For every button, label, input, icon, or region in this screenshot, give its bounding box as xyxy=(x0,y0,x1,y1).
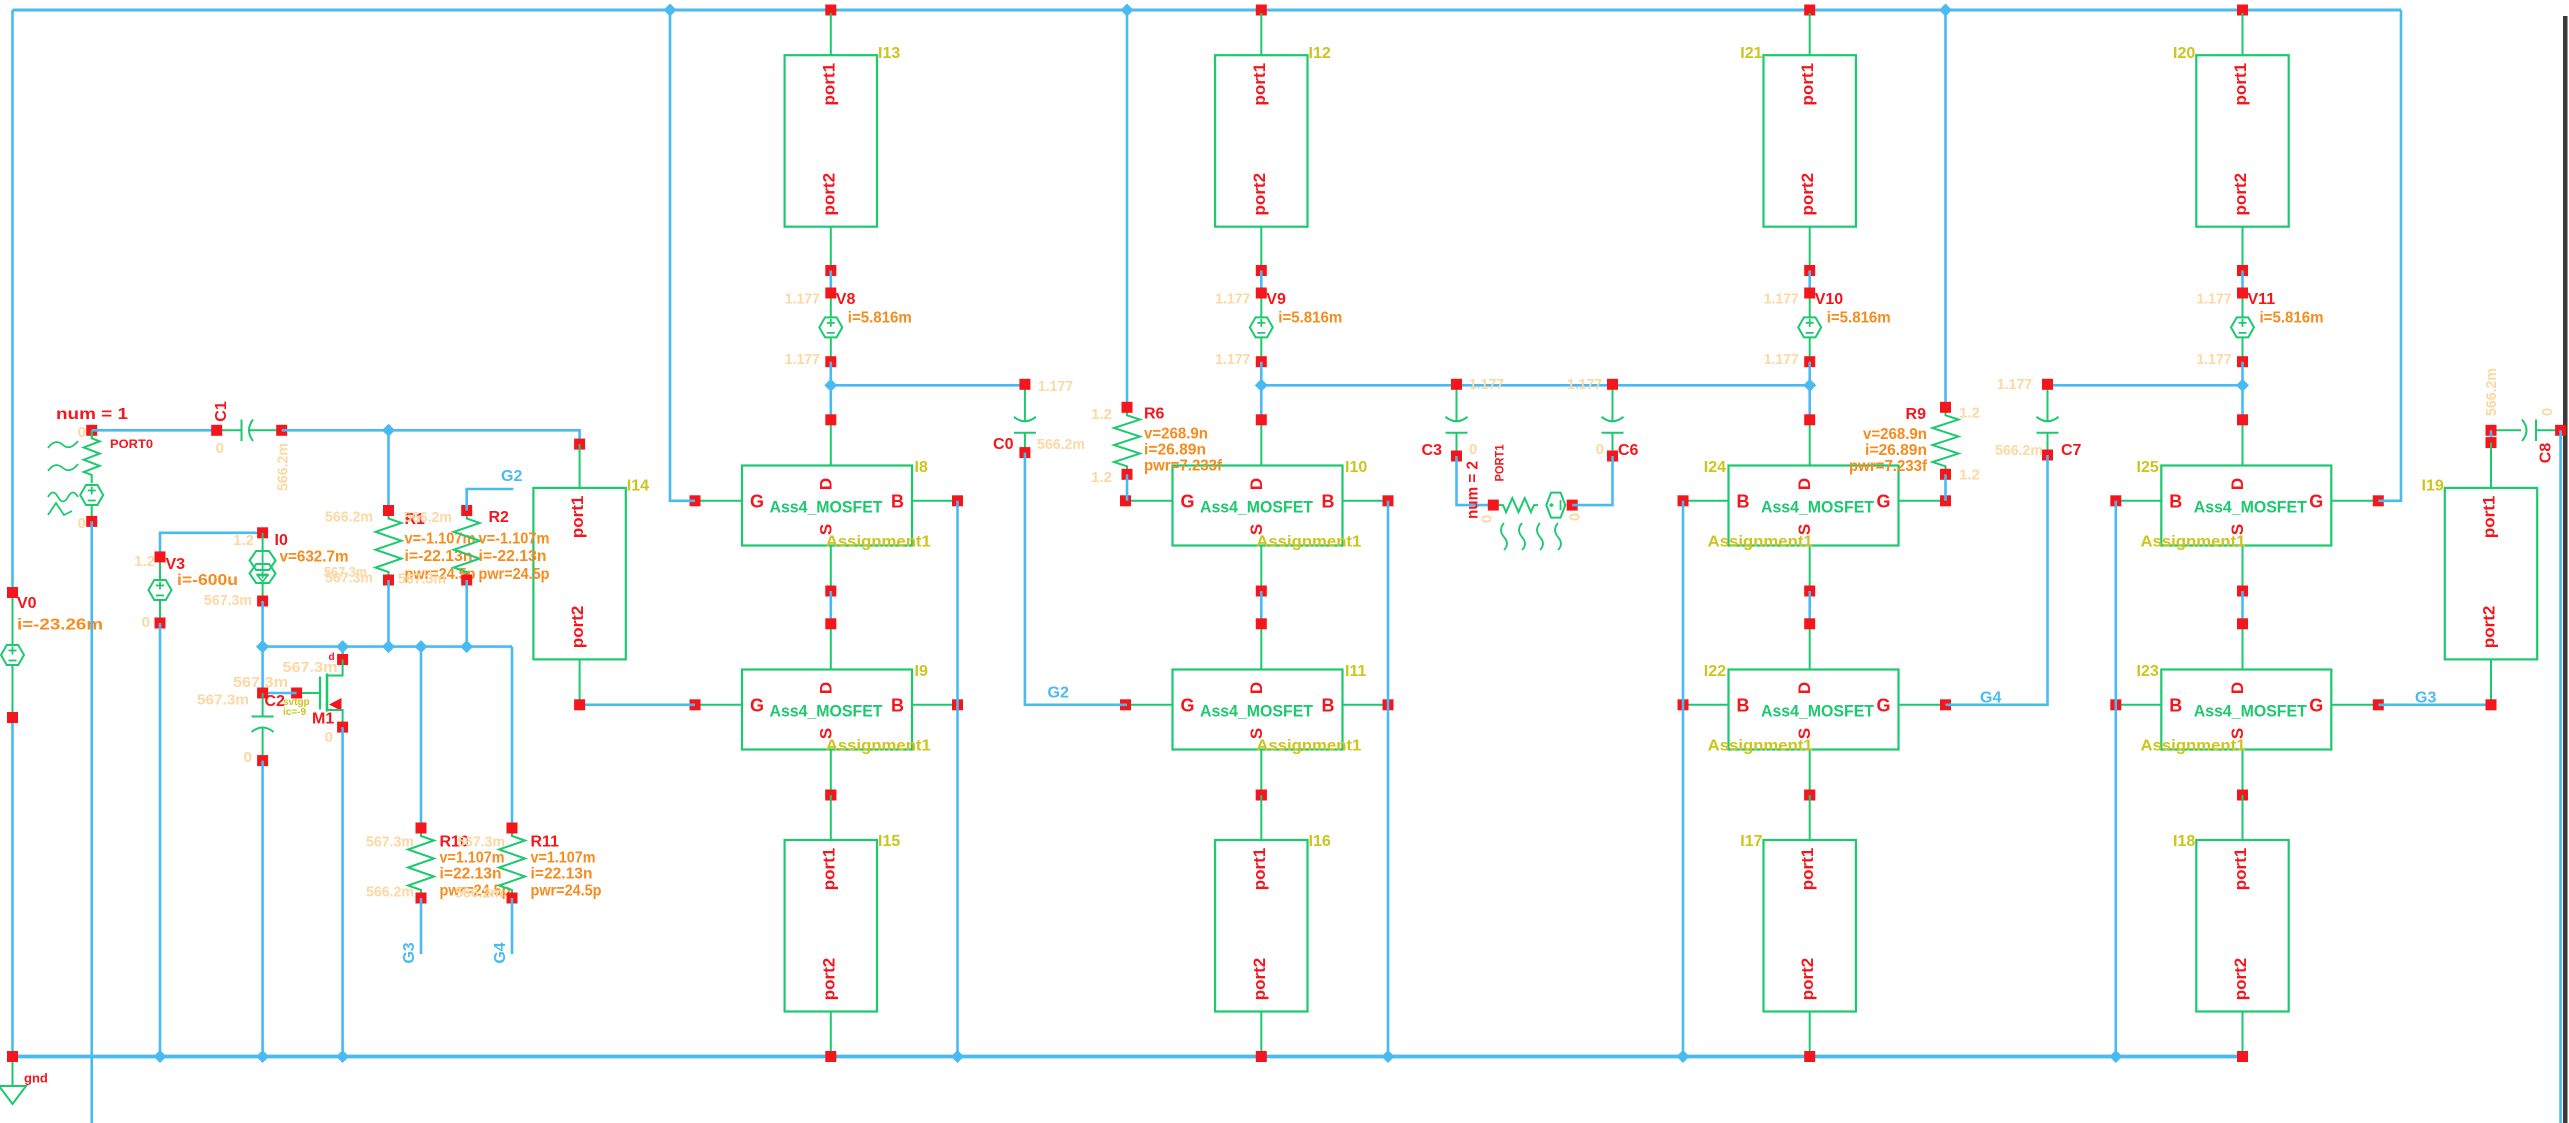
svg-text:0: 0 xyxy=(2539,408,2556,416)
wire gnd bottom rail xyxy=(11,1055,2248,1059)
svg-text:Assignment1: Assignment1 xyxy=(2141,738,2246,755)
svg-text:0: 0 xyxy=(1567,513,1584,521)
svg-text:G4: G4 xyxy=(492,942,509,963)
wire V3 to gnd rail xyxy=(159,623,162,1057)
current source I0 xyxy=(250,527,288,606)
svg-text:566.2m: 566.2m xyxy=(2483,368,2500,416)
svg-text:i=5.816m: i=5.816m xyxy=(1278,310,1342,327)
svg-text:port1: port1 xyxy=(1250,848,1269,891)
svg-text:port2: port2 xyxy=(2231,173,2250,216)
svg-text:port1: port1 xyxy=(819,63,838,106)
wire I14 port2 to I9 gate xyxy=(580,703,695,706)
capacitor C6 xyxy=(1602,379,1639,462)
svg-text:Assignment1: Assignment1 xyxy=(1256,534,1361,551)
svg-text:567.3m: 567.3m xyxy=(457,834,505,851)
wire I0 to mid node xyxy=(261,601,264,647)
svg-text:I13: I13 xyxy=(878,45,900,62)
wire R1 to mid node xyxy=(387,580,390,647)
wire C8 to I19 port1 xyxy=(2490,430,2493,442)
capacitor C3 xyxy=(1422,379,1468,462)
svg-text:M1: M1 xyxy=(312,711,334,728)
svg-text:C6: C6 xyxy=(1618,442,1639,459)
svg-text:566.2m: 566.2m xyxy=(366,884,414,901)
junction node col I25 xyxy=(2236,379,2249,392)
wire net G4 I22 gate to C7 xyxy=(1946,455,2048,705)
svg-text:G: G xyxy=(1876,695,1890,715)
wire C2 to gnd rail xyxy=(261,761,264,1057)
capacitor C0 xyxy=(993,379,1036,458)
junction bulk net I22 on gnd rail xyxy=(1677,1050,1690,1063)
svg-text:port1: port1 xyxy=(2231,63,2250,106)
wire node4 to C7 xyxy=(2048,384,2243,387)
svg-text:1.2: 1.2 xyxy=(233,532,254,549)
svg-text:G: G xyxy=(2309,695,2323,715)
wire vdd to R9 xyxy=(1944,10,1947,407)
svg-text:B: B xyxy=(891,491,904,511)
junction R9 on vdd rail xyxy=(1939,4,1952,17)
svg-text:I21: I21 xyxy=(1740,45,1762,62)
port source PORT0 xyxy=(80,425,103,527)
mosfet block I9 (Ass4_MOSFET) xyxy=(690,618,964,800)
svg-text:567.3m: 567.3m xyxy=(197,692,249,709)
svg-text:v=1.107m: v=1.107m xyxy=(531,850,596,867)
svg-text:i=-600u: i=-600u xyxy=(177,572,238,589)
wire PORT1 to C6 xyxy=(1572,456,1612,505)
svg-text:I23: I23 xyxy=(2137,663,2159,680)
svg-text:D: D xyxy=(1247,478,1266,490)
wire V8 to I8 drain node xyxy=(829,362,832,420)
wire mid node to R10 xyxy=(420,647,423,828)
wire node2 to node3 through C3 C6 xyxy=(1261,384,1809,387)
wire net G3 below R10 xyxy=(420,898,423,954)
svg-text:I8: I8 xyxy=(915,459,928,476)
wire V11 to I25 drain node xyxy=(2241,362,2244,420)
wire V0 to gnd rail xyxy=(11,718,14,1057)
svg-text:port2: port2 xyxy=(2231,958,2250,1001)
svg-text:0: 0 xyxy=(1479,515,1496,523)
svg-text:I11: I11 xyxy=(1345,663,1366,680)
junction C2 on gnd rail xyxy=(256,1050,269,1063)
wire bulk net column I25/I23 xyxy=(2115,501,2118,1057)
pin I12 port2 bottom xyxy=(1256,265,1267,276)
svg-text:G: G xyxy=(750,491,764,511)
svg-text:567.3m: 567.3m xyxy=(366,834,414,851)
svg-text:V8: V8 xyxy=(836,291,856,308)
wire C8 to right edge bottom xyxy=(2559,430,2562,1123)
svg-text:I10: I10 xyxy=(1345,459,1367,476)
svg-text:I20: I20 xyxy=(2173,45,2195,62)
vsource V8 xyxy=(819,288,855,368)
svg-text:port2: port2 xyxy=(819,958,838,1001)
svg-text:i=26.89n: i=26.89n xyxy=(1144,442,1206,459)
mosfet block I11 (Ass4_MOSFET) xyxy=(1120,618,1394,800)
junction bulk net I9 on gnd rail xyxy=(951,1050,964,1063)
pin I18 port2 on gnd rail xyxy=(2237,1051,2248,1062)
svg-text:C0: C0 xyxy=(993,436,1014,453)
wire stub net G2 at R2 xyxy=(467,489,514,511)
pin I14 port1 xyxy=(574,439,585,450)
wire bulk net column I24/I22 xyxy=(1682,501,1685,1057)
label R1 values xyxy=(405,531,476,584)
port block I18 xyxy=(2173,795,2289,1057)
resistor R6 xyxy=(1114,402,1165,480)
svg-text:port2: port2 xyxy=(2480,606,2499,649)
port block I19 xyxy=(2422,443,2538,705)
mosfet block I8 (Ass4_MOSFET) xyxy=(690,414,964,596)
svg-text:1.177: 1.177 xyxy=(2197,351,2232,368)
svg-text:566.2m: 566.2m xyxy=(275,443,292,491)
svg-text:I25: I25 xyxy=(2137,459,2159,476)
svg-text:v=268.9n: v=268.9n xyxy=(1863,426,1927,443)
pin I20 port2 bottom xyxy=(2237,265,2248,276)
svg-text:1.177: 1.177 xyxy=(1764,351,1799,368)
mosfet block I22 (Ass4_MOSFET) xyxy=(1678,618,1952,800)
svg-text:V10: V10 xyxy=(1815,291,1844,308)
junction bulk net I23 on gnd rail xyxy=(2109,1050,2122,1063)
junction bulk net I11 on gnd rail xyxy=(1382,1050,1395,1063)
port block I13 xyxy=(785,13,901,271)
wire I20 to V11 xyxy=(2241,271,2244,294)
wire node1 to C0 xyxy=(831,384,1025,387)
svg-text:1.2: 1.2 xyxy=(134,553,155,570)
wire left edge to V0 xyxy=(11,10,14,593)
pin I21 port2 bottom xyxy=(1804,265,1815,276)
svg-text:I19: I19 xyxy=(2422,478,2444,495)
svg-text:1.177: 1.177 xyxy=(1764,291,1799,308)
svg-text:V3: V3 xyxy=(166,556,186,573)
svg-text:port2: port2 xyxy=(1250,173,1269,216)
svg-text:567.3m: 567.3m xyxy=(324,564,367,581)
svg-text:G: G xyxy=(1181,491,1195,511)
svg-text:Assignment1: Assignment1 xyxy=(1256,738,1361,755)
svg-text:1.2: 1.2 xyxy=(1091,406,1112,423)
junction M1 drain on mid wire xyxy=(336,640,349,653)
resistor R10 xyxy=(408,823,469,904)
port block I21 xyxy=(1740,13,1856,271)
svg-text:C8: C8 xyxy=(2538,443,2555,464)
svg-text:0: 0 xyxy=(216,440,224,457)
wire I13 to V8 xyxy=(829,271,832,294)
svg-text:D: D xyxy=(2228,478,2247,490)
svg-text:i=-23.26m: i=-23.26m xyxy=(17,617,103,634)
svg-text:i=5.816m: i=5.816m xyxy=(2260,310,2324,327)
svg-text:B: B xyxy=(1737,491,1750,511)
svg-text:port2: port2 xyxy=(1798,958,1817,1001)
svg-text:I15: I15 xyxy=(878,833,900,850)
svg-text:Ass4_MOSFET: Ass4_MOSFET xyxy=(1761,702,1875,721)
wire M1 source to gnd rail xyxy=(341,727,344,1056)
port block I12 xyxy=(1215,13,1331,271)
junction C1 wire to R1 xyxy=(382,424,395,437)
svg-text:I12: I12 xyxy=(1309,45,1331,62)
wire net G2 C0 to I11 gate xyxy=(1025,453,1127,705)
junction M1 source on gnd rail xyxy=(336,1050,349,1063)
svg-text:1.177: 1.177 xyxy=(1215,291,1250,308)
svg-text:I0: I0 xyxy=(275,532,288,549)
svg-text:I17: I17 xyxy=(1740,833,1762,850)
svg-text:566.2m: 566.2m xyxy=(404,509,452,526)
svg-text:D: D xyxy=(1795,478,1814,490)
svg-text:R2: R2 xyxy=(489,509,510,526)
svg-text:I24: I24 xyxy=(1704,459,1726,476)
svg-text:port2: port2 xyxy=(819,173,838,216)
svg-text:G: G xyxy=(1876,491,1890,511)
svg-text:PORT1: PORT1 xyxy=(1495,444,1507,482)
svg-text:V0: V0 xyxy=(17,595,37,612)
svg-text:i=22.13n: i=22.13n xyxy=(531,866,593,883)
svg-text:D: D xyxy=(816,478,835,490)
capacitor C8 xyxy=(2486,420,2567,442)
svg-text:gnd: gnd xyxy=(24,1071,48,1086)
svg-text:R9: R9 xyxy=(1906,406,1927,423)
wire net G3 I23 gate to I19 port2 xyxy=(2378,703,2491,706)
label R11 values xyxy=(531,850,602,900)
wire net G4 below R11 xyxy=(511,898,514,954)
wire mid node to C2 xyxy=(261,647,264,690)
junction R2 on mid wire xyxy=(460,640,473,653)
vsource V10 xyxy=(1798,288,1843,368)
wire down to R1 xyxy=(387,430,390,510)
svg-text:0: 0 xyxy=(1469,441,1477,458)
wire I12 to V9 xyxy=(1260,271,1263,294)
svg-text:Ass4_MOSFET: Ass4_MOSFET xyxy=(770,498,884,517)
svg-text:I18: I18 xyxy=(2173,833,2195,850)
resistor R11 xyxy=(499,823,559,904)
wire R9 to I24 gate xyxy=(1944,474,1947,501)
svg-text:1.177: 1.177 xyxy=(785,291,820,308)
svg-text:B: B xyxy=(1322,491,1335,511)
svg-text:566.2m: 566.2m xyxy=(1037,436,1085,453)
svg-text:pwr=7.233f: pwr=7.233f xyxy=(1144,458,1223,475)
label R2 values xyxy=(479,531,550,584)
svg-text:port1: port1 xyxy=(2480,496,2499,539)
svg-text:B: B xyxy=(1737,695,1750,715)
port block I14 xyxy=(533,444,649,705)
svg-text:G: G xyxy=(750,695,764,715)
port block I17 xyxy=(1740,795,1856,1057)
svg-text:1.177: 1.177 xyxy=(2197,291,2232,308)
svg-text:Ass4_MOSFET: Ass4_MOSFET xyxy=(1200,498,1314,517)
wire I8 S to I9 D xyxy=(829,591,832,624)
svg-text:566.2m: 566.2m xyxy=(325,509,373,526)
pin I17 port2 on gnd rail xyxy=(1804,1051,1815,1062)
port source PORT1 xyxy=(1488,493,1578,518)
svg-text:I9: I9 xyxy=(915,663,928,680)
svg-text:C7: C7 xyxy=(2061,442,2082,459)
svg-text:0: 0 xyxy=(78,424,86,441)
wire V9 to I10 drain node xyxy=(1260,362,1263,420)
svg-text:1.2: 1.2 xyxy=(1959,467,1980,484)
svg-text:C1: C1 xyxy=(213,401,230,422)
svg-text:R11: R11 xyxy=(531,834,560,851)
svg-text:C2: C2 xyxy=(265,693,286,710)
vsource V0 xyxy=(1,587,37,723)
svg-text:port1: port1 xyxy=(568,496,587,539)
label R10 values xyxy=(440,850,511,900)
wire rail stub I13 xyxy=(825,5,836,16)
PORT1 sine marks xyxy=(1501,523,1561,550)
junction R10 on mid wire xyxy=(415,640,428,653)
port block I16 xyxy=(1215,795,1331,1057)
junction I0 on mid wire xyxy=(256,640,269,653)
svg-text:1.177: 1.177 xyxy=(1215,351,1250,368)
wire mid node to M1 drain xyxy=(341,647,344,660)
svg-text:i=26.89n: i=26.89n xyxy=(1865,442,1927,459)
svg-text:567.3m: 567.3m xyxy=(398,571,446,588)
svg-text:0: 0 xyxy=(244,749,252,766)
capacitor C7 xyxy=(2037,379,2082,461)
svg-text:G3: G3 xyxy=(401,942,418,963)
junction R1 on mid wire xyxy=(382,640,395,653)
svg-text:1.2: 1.2 xyxy=(1091,469,1112,486)
wire bulk net column I10/I11 xyxy=(1387,501,1390,1057)
junction node col I10 xyxy=(1255,379,1268,392)
svg-text:D: D xyxy=(2228,682,2247,694)
wire I8 gate to vdd rail xyxy=(670,10,695,501)
pin I19 port2 xyxy=(2486,699,2497,710)
svg-text:567.3m: 567.3m xyxy=(204,592,252,609)
wire mid node horizontal xyxy=(263,645,512,648)
transistor M1 xyxy=(291,652,348,733)
svg-text:G2: G2 xyxy=(501,468,522,485)
svg-text:Ass4_MOSFET: Ass4_MOSFET xyxy=(1761,498,1875,517)
svg-text:B: B xyxy=(891,695,904,715)
svg-text:v=1.107m: v=1.107m xyxy=(440,850,505,867)
svg-text:D: D xyxy=(1795,682,1814,694)
pin I13 port2 bottom xyxy=(825,265,836,276)
pin shared I9 S / I15 port1 xyxy=(825,790,836,801)
wire I24 S to I22 D xyxy=(1808,591,1811,624)
svg-text:1.177: 1.177 xyxy=(1997,376,2032,393)
svg-text:i=-22.13n: i=-22.13n xyxy=(405,548,473,565)
svg-text:G: G xyxy=(1181,695,1195,715)
svg-text:port1: port1 xyxy=(1798,848,1817,891)
svg-text:C3: C3 xyxy=(1422,442,1443,459)
vsource V9 xyxy=(1250,288,1286,368)
resistor R9 xyxy=(1906,402,1959,480)
wire I10 S to I11 D xyxy=(1260,591,1263,624)
wire R6 to I10 gate xyxy=(1126,474,1129,501)
ground gnd xyxy=(0,1051,48,1104)
junction C2 on mid wire xyxy=(256,640,269,653)
wire I25 S to I23 D xyxy=(2241,591,2244,624)
svg-text:pwr=7.233f: pwr=7.233f xyxy=(1849,458,1928,475)
svg-text:B: B xyxy=(1322,695,1335,715)
mosfet block I25 (Ass4_MOSFET) xyxy=(2110,414,2384,596)
wire PORT0 to bottom edge xyxy=(90,521,93,1123)
wire I25 gate to vdd rail xyxy=(2378,10,2401,501)
svg-text:G4: G4 xyxy=(1980,690,2001,707)
svg-text:Ass4_MOSFET: Ass4_MOSFET xyxy=(2194,498,2308,517)
vsource V11 xyxy=(2231,288,2275,368)
svg-text:port1: port1 xyxy=(1250,63,1269,106)
svg-text:567.3m: 567.3m xyxy=(283,659,338,676)
pin shared I23 S / I18 port1 xyxy=(2237,790,2248,801)
wire R2 to mid node xyxy=(465,580,468,647)
svg-text:0: 0 xyxy=(325,729,333,746)
svg-text:v=268.9n: v=268.9n xyxy=(1144,426,1208,443)
wire vdd top rail xyxy=(13,9,2402,12)
capacitor C2 xyxy=(252,688,285,767)
svg-text:D: D xyxy=(1247,682,1266,694)
pin I15 port2 on gnd rail xyxy=(825,1051,836,1062)
svg-text:num = 2: num = 2 xyxy=(1465,461,1482,519)
svg-text:0: 0 xyxy=(1596,441,1604,458)
svg-text:Ass4_MOSFET: Ass4_MOSFET xyxy=(2194,702,2308,721)
port block I20 xyxy=(2173,13,2289,271)
label R6 values xyxy=(1144,426,1223,475)
wire bulk net column I8/I9 xyxy=(956,501,959,1057)
wire rail stub I21 xyxy=(1804,5,1815,16)
pin I19 port1 xyxy=(2486,437,2497,448)
svg-text:Assignment1: Assignment1 xyxy=(1708,738,1813,755)
junction V3 on gnd rail xyxy=(154,1050,167,1063)
svg-text:v=632.7m: v=632.7m xyxy=(280,549,349,566)
wire V3 to I0 xyxy=(160,533,263,557)
junction I8 gate on vdd rail xyxy=(664,4,677,17)
svg-text:G: G xyxy=(2309,491,2323,511)
svg-text:i=5.816m: i=5.816m xyxy=(848,310,912,327)
pin shared I22 S / I17 port1 xyxy=(1804,790,1815,801)
svg-text:R6: R6 xyxy=(1144,406,1165,423)
junction R6 on vdd rail xyxy=(1121,4,1134,17)
wire C3 to PORT1 xyxy=(1457,456,1489,505)
svg-text:G3: G3 xyxy=(2415,690,2436,707)
wire mid node to R11 xyxy=(511,647,514,828)
svg-text:D: D xyxy=(816,682,835,694)
svg-text:1.177: 1.177 xyxy=(1567,376,1602,393)
svg-text:port2: port2 xyxy=(1250,958,1269,1001)
wire C1 to I14 port1 xyxy=(282,430,580,444)
svg-text:G2: G2 xyxy=(1048,685,1069,702)
svg-text:V9: V9 xyxy=(1266,291,1286,308)
svg-text:1.177: 1.177 xyxy=(1038,378,1073,395)
svg-text:i=22.13n: i=22.13n xyxy=(440,866,502,883)
svg-text:v=-1.107m: v=-1.107m xyxy=(479,531,550,548)
svg-text:B: B xyxy=(2169,491,2182,511)
svg-text:ic=-9: ic=-9 xyxy=(283,707,307,718)
svg-text:Assignment1: Assignment1 xyxy=(826,738,931,755)
svg-text:Ass4_MOSFET: Ass4_MOSFET xyxy=(1200,702,1314,721)
svg-text:Assignment1: Assignment1 xyxy=(1708,534,1813,551)
svg-text:Assignment1: Assignment1 xyxy=(2141,534,2246,551)
svg-text:pwr=24.5p: pwr=24.5p xyxy=(479,566,550,583)
svg-text:0: 0 xyxy=(78,515,86,532)
wire vdd to R6 xyxy=(1126,10,1129,407)
resistor R2 xyxy=(454,505,509,586)
junction node col I8 xyxy=(824,379,837,392)
window border right edge xyxy=(2563,16,2568,1123)
svg-text:1.2: 1.2 xyxy=(1959,405,1980,422)
svg-text:port1: port1 xyxy=(1798,63,1817,106)
wire I21 to V10 xyxy=(1808,271,1811,294)
mosfet block I24 (Ass4_MOSFET) xyxy=(1678,414,1952,596)
pin I16 port2 on gnd rail xyxy=(1256,1051,1267,1062)
junction node col I24 xyxy=(1803,379,1816,392)
svg-text:V11: V11 xyxy=(2248,291,2276,308)
wire rail stub I12 xyxy=(1256,5,1267,16)
svg-text:I14: I14 xyxy=(627,478,649,495)
mosfet block I10 (Ass4_MOSFET) xyxy=(1120,414,1394,596)
svg-text:I16: I16 xyxy=(1309,833,1331,850)
svg-text:Ass4_MOSFET: Ass4_MOSFET xyxy=(770,702,884,721)
pin I14 port2 xyxy=(574,699,585,710)
svg-text:1.177: 1.177 xyxy=(1469,376,1504,393)
PORT0 sine marks xyxy=(48,441,78,515)
wire PORT0 to C1 xyxy=(92,429,217,432)
svg-text:port1: port1 xyxy=(2231,848,2250,891)
capacitor C1 xyxy=(211,420,287,442)
